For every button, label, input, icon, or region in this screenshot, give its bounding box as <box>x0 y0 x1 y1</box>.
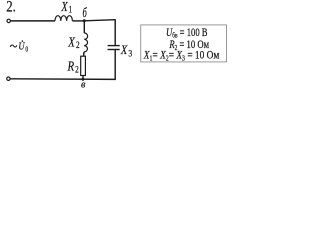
svg-text:2.: 2. <box>6 0 16 16</box>
source label ~ U0 <box>10 40 28 54</box>
svg-text:0: 0 <box>25 46 28 54</box>
parameter box <box>141 25 227 62</box>
resistor R2 <box>81 56 86 75</box>
svg-text:Uбв = 100 В: Uбв = 100 В <box>166 27 208 40</box>
wire: bottom <box>10 78 116 81</box>
wire: stem between X2 and R2 <box>83 52 85 56</box>
svg-text:2: 2 <box>76 40 80 50</box>
svg-text:2: 2 <box>75 65 79 75</box>
inductor X2 <box>84 33 88 52</box>
node в label <box>81 79 86 90</box>
svg-text:X: X <box>61 0 69 14</box>
svg-text:X: X <box>67 34 75 49</box>
node б label <box>83 6 88 20</box>
svg-text:X1= X2= X3 = 10 Ом: X1= X2= X3 = 10 Ом <box>143 49 220 63</box>
inductor X1 <box>55 16 72 21</box>
wire: top from node б to top-right corner <box>84 20 115 21</box>
parameter line 3: X1 = X2 = X3 = 10 Ом <box>143 49 220 63</box>
svg-text:3: 3 <box>128 47 132 58</box>
svg-text:R: R <box>67 58 75 73</box>
svg-text:U: U <box>18 40 25 52</box>
wire: top from X1 to node б <box>72 20 84 22</box>
svg-text:1: 1 <box>69 5 72 15</box>
label R2 <box>67 58 79 74</box>
svg-text:в: в <box>81 79 86 90</box>
terminal (bottom-left input) <box>7 77 10 80</box>
svg-text:X: X <box>120 43 128 57</box>
svg-text:б: б <box>83 6 88 20</box>
junction dot at node в <box>81 78 84 81</box>
terminal (top-left input) <box>7 19 10 22</box>
figure number 2. <box>6 0 16 16</box>
label X3 <box>120 43 132 59</box>
capacitor X3 <box>108 46 120 50</box>
label X2 <box>67 34 79 50</box>
wire: right branch upper segment <box>114 19 116 45</box>
junction dot at node б <box>83 19 86 22</box>
wire: right branch lower segment <box>114 50 116 80</box>
parameter line 1: U_бв = 100 В <box>166 27 208 40</box>
wire: top from terminal to inductor X1 <box>11 20 55 22</box>
wire: stub R2 to bottom wire <box>82 76 84 80</box>
parameter line 2: R2 = 10 Ом <box>169 39 210 52</box>
wire: middle branch stem from node б <box>83 21 85 33</box>
label X1 <box>61 0 73 15</box>
